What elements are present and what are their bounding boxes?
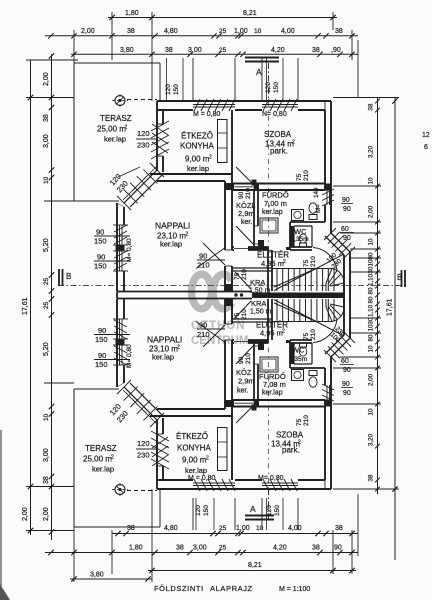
svg-text:6: 6 bbox=[424, 144, 428, 151]
svg-text:ker.lap: ker.lap bbox=[262, 390, 283, 397]
svg-text:NAPPALI: NAPPALI bbox=[155, 221, 190, 231]
svg-text:3,80: 3,80 bbox=[120, 47, 134, 54]
svg-text:17,61: 17,61 bbox=[22, 297, 29, 315]
svg-text:210: 210 bbox=[303, 170, 310, 181]
section mark A bottom bbox=[245, 504, 274, 520]
svg-text:A: A bbox=[256, 67, 262, 77]
svg-text:4,00: 4,00 bbox=[288, 525, 302, 532]
svg-text:2: 2 bbox=[282, 329, 285, 335]
svg-text:2: 2 bbox=[177, 345, 180, 351]
kitchen counter bbox=[218, 120, 228, 163]
small dim labels upper unit bbox=[94, 82, 354, 280]
svg-text:M= 0,80: M= 0,80 bbox=[126, 238, 133, 262]
svg-text:8,21: 8,21 bbox=[243, 10, 257, 17]
svg-text:230: 230 bbox=[137, 141, 150, 150]
svg-text:2,00: 2,00 bbox=[43, 507, 50, 521]
svg-text:7,08 m: 7,08 m bbox=[263, 380, 286, 389]
svg-text:4,80: 4,80 bbox=[164, 525, 178, 532]
svg-text:90: 90 bbox=[98, 326, 106, 335]
svg-text:4,20: 4,20 bbox=[273, 545, 287, 552]
svg-text:1,10: 1,10 bbox=[368, 273, 375, 286]
svg-text:150: 150 bbox=[274, 505, 281, 516]
svg-text:ker.lap: ker.lap bbox=[152, 353, 174, 362]
svg-text:9,00 m: 9,00 m bbox=[182, 456, 207, 465]
washbasin bbox=[292, 210, 304, 221]
svg-text:80: 80 bbox=[368, 287, 375, 294]
svg-text:ÉTKEZŐ: ÉTKEZŐ bbox=[181, 132, 213, 141]
svg-text:3,00: 3,00 bbox=[43, 134, 50, 148]
svg-text:90: 90 bbox=[342, 381, 350, 388]
svg-text:park.: park. bbox=[282, 446, 300, 455]
WC box walls bbox=[289, 222, 291, 250]
svg-text:2,00: 2,00 bbox=[368, 205, 375, 218]
svg-text:10: 10 bbox=[43, 176, 50, 184]
svg-text:2,00: 2,00 bbox=[43, 72, 50, 86]
svg-text:38: 38 bbox=[176, 545, 184, 552]
svg-text:210: 210 bbox=[245, 188, 252, 199]
bottom dimension chain line E bbox=[45, 545, 358, 556]
svg-text:B: B bbox=[397, 273, 402, 282]
svg-text:1,00: 1,00 bbox=[234, 28, 248, 35]
svg-text:ÉTKEZŐ: ÉTKEZŐ bbox=[176, 432, 208, 441]
furdo left wall bbox=[253, 190, 255, 247]
szoba door swing bbox=[236, 167, 253, 184]
svg-text:3,80: 3,80 bbox=[90, 572, 104, 579]
svg-text:4,80: 4,80 bbox=[164, 28, 178, 35]
svg-text:2: 2 bbox=[209, 155, 212, 161]
svg-text:210: 210 bbox=[197, 330, 210, 339]
svg-text:120: 120 bbox=[195, 505, 202, 516]
svg-text:90: 90 bbox=[238, 191, 245, 199]
terrace column bbox=[115, 96, 125, 106]
kitchen left wall bbox=[156, 101, 158, 170]
bottom dimension chain line D bbox=[112, 525, 358, 536]
svg-text:4,95 m: 4,95 m bbox=[260, 329, 283, 338]
bottom extension lines bbox=[74, 489, 358, 582]
stairs entry door arc bbox=[313, 248, 337, 272]
svg-text:3,00: 3,00 bbox=[193, 545, 207, 552]
svg-text:120: 120 bbox=[265, 82, 272, 93]
room labels lower unit bbox=[83, 299, 307, 475]
svg-text:90: 90 bbox=[343, 235, 351, 242]
svg-text:80: 80 bbox=[368, 296, 375, 303]
svg-text:120: 120 bbox=[165, 84, 172, 95]
room labels upper unit bbox=[97, 114, 309, 295]
section mark B left bbox=[59, 269, 71, 286]
scan edge artifacts bbox=[0, 430, 2, 600]
svg-text:2,00: 2,00 bbox=[81, 28, 95, 35]
svg-text:park.: park. bbox=[270, 147, 288, 156]
spine wall corridor side bbox=[231, 110, 233, 250]
svg-text:17,61: 17,61 bbox=[387, 298, 394, 316]
svg-text:210: 210 bbox=[197, 261, 210, 270]
small dim labels lower unit bbox=[94, 309, 354, 516]
svg-text:SZOBA: SZOBA bbox=[264, 130, 292, 139]
svg-text:2: 2 bbox=[292, 140, 295, 146]
svg-text:150: 150 bbox=[94, 262, 107, 271]
nappali window 1 90/150 bbox=[119, 225, 121, 245]
svg-text:38: 38 bbox=[368, 103, 375, 110]
right horizontal extension stubs bbox=[333, 98, 399, 490]
svg-text:120: 120 bbox=[137, 129, 150, 138]
svg-text:2: 2 bbox=[186, 232, 189, 238]
svg-text:25: 25 bbox=[43, 301, 50, 309]
elote r top wall H2 bbox=[232, 246, 234, 248]
svg-text:230: 230 bbox=[137, 451, 150, 460]
svg-text:5,20: 5,20 bbox=[43, 238, 50, 252]
svg-text:KRA: KRA bbox=[251, 299, 266, 308]
svg-text:210: 210 bbox=[303, 415, 310, 426]
svg-text:10: 10 bbox=[368, 238, 375, 245]
svg-text:B: B bbox=[66, 272, 71, 281]
svg-text:12: 12 bbox=[422, 132, 430, 139]
section mark B right bbox=[397, 270, 405, 287]
svg-text:210: 210 bbox=[241, 269, 248, 280]
svg-text:60: 60 bbox=[341, 226, 349, 233]
left outer chain 17,61 bbox=[22, 60, 33, 535]
svg-text:90: 90 bbox=[343, 390, 351, 397]
furdo door gap bbox=[254, 225, 258, 227]
toilet in furdo bbox=[309, 203, 317, 213]
svg-text:7,00 m: 7,00 m bbox=[264, 199, 287, 208]
svg-text:3,00: 3,00 bbox=[43, 448, 50, 462]
svg-text:2,9m: 2,9m bbox=[238, 209, 255, 218]
svg-text:10: 10 bbox=[368, 408, 375, 415]
svg-text:1,50 m: 1,50 m bbox=[250, 309, 272, 316]
svg-text:210: 210 bbox=[310, 329, 317, 340]
svg-text:2: 2 bbox=[283, 259, 286, 265]
svg-text:10: 10 bbox=[43, 413, 50, 421]
svg-text:ker.lap: ker.lap bbox=[92, 465, 114, 474]
nappali window 2 90/150 bbox=[119, 251, 121, 271]
svg-text:90: 90 bbox=[343, 206, 351, 213]
watermark OC Otthon Centrum bbox=[191, 274, 249, 347]
svg-text:120: 120 bbox=[137, 439, 150, 448]
black wall blobs bbox=[258, 240, 264, 247]
svg-text:38: 38 bbox=[43, 114, 50, 122]
svg-text:90: 90 bbox=[238, 356, 245, 364]
svg-text:4,00: 4,00 bbox=[281, 28, 295, 35]
svg-text:10: 10 bbox=[368, 177, 375, 184]
svg-text:TERASZ: TERASZ bbox=[100, 114, 132, 123]
svg-text:38: 38 bbox=[43, 476, 50, 484]
right inner chain bbox=[375, 97, 380, 494]
spine wall nappali side bbox=[224, 181, 226, 250]
svg-text:8,21: 8,21 bbox=[248, 562, 262, 569]
svg-text:75: 75 bbox=[234, 312, 241, 320]
staircase upper flight bbox=[273, 268, 333, 270]
svg-text:80: 80 bbox=[368, 334, 375, 341]
left inner chain bbox=[43, 53, 54, 540]
kitchen-terrace door 120/230 hatch bbox=[151, 121, 169, 131]
svg-text:WC: WC bbox=[292, 346, 305, 355]
svg-text:90: 90 bbox=[343, 367, 351, 374]
right inner chain labels bbox=[368, 103, 375, 481]
bay right wall bbox=[349, 252, 351, 291]
right outer wall upper bbox=[330, 101, 332, 233]
svg-text:3,20: 3,20 bbox=[368, 433, 375, 446]
bay chamfer window 100/230 bbox=[331, 233, 350, 252]
svg-text:150: 150 bbox=[95, 335, 108, 344]
svg-text:2,00: 2,00 bbox=[368, 373, 375, 386]
left horizontal extension stubs bbox=[26, 60, 78, 531]
svg-text:FÖLDSZINTI: FÖLDSZINTI bbox=[154, 584, 204, 593]
svg-text:2: 2 bbox=[206, 456, 209, 462]
svg-text:2: 2 bbox=[111, 455, 114, 461]
svg-text:1,35m: 1,35m bbox=[289, 356, 307, 363]
svg-text:25: 25 bbox=[219, 28, 227, 35]
top dimension chain line B bbox=[45, 28, 358, 39]
svg-text:10: 10 bbox=[256, 525, 264, 532]
svg-text:75: 75 bbox=[296, 418, 303, 426]
stair diagonals bbox=[274, 254, 344, 291]
svg-text:A: A bbox=[250, 504, 256, 514]
svg-text:210: 210 bbox=[310, 256, 317, 267]
kozl door swing bbox=[236, 226, 254, 245]
party wall between the two units bbox=[117, 289, 350, 301]
svg-text:25: 25 bbox=[219, 47, 227, 54]
dashed eaves line column to wall bbox=[127, 99, 157, 101]
door elote r-nappali gap + swing bbox=[225, 249, 232, 251]
svg-text:ker.: ker. bbox=[237, 388, 248, 395]
svg-text:38: 38 bbox=[312, 545, 320, 552]
svg-text:1,50 m: 1,50 m bbox=[249, 288, 271, 295]
svg-text:ker.lap: ker.lap bbox=[160, 240, 182, 249]
svg-text:25,00 m: 25,00 m bbox=[83, 455, 112, 464]
svg-text:M = 1:100: M = 1:100 bbox=[279, 586, 310, 593]
svg-text:38: 38 bbox=[127, 28, 135, 35]
svg-text:ker.lap: ker.lap bbox=[185, 466, 207, 475]
poché fills bbox=[290, 226, 294, 247]
svg-text:3,20: 3,20 bbox=[368, 145, 375, 158]
svg-text:SZOBA: SZOBA bbox=[276, 431, 304, 440]
svg-text:10: 10 bbox=[368, 345, 375, 352]
svg-text:4,95 m: 4,95 m bbox=[261, 259, 284, 268]
szoba door gap in H1 bbox=[233, 184, 235, 191]
top extension lines bbox=[74, 12, 358, 101]
svg-text:38: 38 bbox=[165, 47, 173, 54]
window meeting block bbox=[116, 245, 125, 251]
svg-text:75: 75 bbox=[234, 272, 241, 280]
nappali left wall bbox=[116, 203, 118, 291]
svg-text:150: 150 bbox=[173, 84, 180, 95]
svg-text:M= 0,80: M= 0,80 bbox=[126, 344, 133, 368]
top dimension chain line C bbox=[71, 47, 358, 57]
svg-text:2,00: 2,00 bbox=[22, 507, 29, 521]
svg-text:90: 90 bbox=[97, 253, 105, 262]
svg-text:M=: M= bbox=[315, 204, 322, 213]
svg-text:ker.: ker. bbox=[241, 219, 252, 226]
svg-text:38: 38 bbox=[335, 28, 343, 35]
svg-text:10: 10 bbox=[254, 28, 262, 35]
svg-text:1,10: 1,10 bbox=[368, 304, 375, 317]
top wall window szoba 120/150 bbox=[262, 104, 298, 106]
svg-text:2: 2 bbox=[125, 125, 128, 131]
svg-text:75: 75 bbox=[303, 332, 310, 340]
szoba door jamb poché bbox=[229, 184, 234, 191]
svg-text:150: 150 bbox=[94, 237, 107, 246]
corner door 120/230 at 45deg bbox=[124, 170, 157, 203]
svg-text:,90: ,90 bbox=[332, 545, 342, 552]
svg-text:150: 150 bbox=[95, 360, 108, 369]
svg-text:KONYHA: KONYHA bbox=[180, 142, 214, 151]
svg-text:120: 120 bbox=[266, 505, 273, 516]
svg-text:25: 25 bbox=[219, 525, 227, 532]
section mark A top bbox=[245, 58, 279, 78]
svg-text:,90: ,90 bbox=[331, 47, 341, 54]
svg-text:90: 90 bbox=[199, 252, 207, 261]
svg-text:N= 0,80: N= 0,80 bbox=[262, 111, 287, 118]
svg-text:90: 90 bbox=[98, 351, 106, 360]
svg-text:1,00: 1,00 bbox=[236, 525, 250, 532]
nappali top wall bbox=[150, 173, 232, 175]
svg-text:ker.lap: ker.lap bbox=[262, 209, 283, 216]
building top wall bbox=[157, 100, 331, 102]
KRA top wall bbox=[232, 267, 272, 269]
terrace outline bbox=[74, 62, 160, 64]
WC toilet bbox=[299, 234, 307, 243]
svg-text:ALAPRAJZ: ALAPRAJZ bbox=[210, 584, 253, 593]
svg-text:75: 75 bbox=[303, 259, 310, 267]
svg-text:5,20: 5,20 bbox=[43, 342, 50, 356]
svg-text:38: 38 bbox=[127, 525, 135, 532]
svg-text:38: 38 bbox=[368, 474, 375, 481]
party wall junction dots bbox=[234, 293, 237, 296]
svg-text:150: 150 bbox=[203, 505, 210, 516]
svg-text:1,35m: 1,35m bbox=[291, 236, 309, 243]
svg-text:M = 0,80: M = 0,80 bbox=[188, 475, 216, 482]
szoba bottom wall bbox=[232, 183, 325, 185]
top dimension chain line A (totals 1,80 / 8,21) bbox=[108, 10, 337, 20]
svg-text:25,00 m: 25,00 m bbox=[97, 125, 126, 134]
svg-text:150: 150 bbox=[273, 82, 280, 93]
svg-text:2,9m: 2,9m bbox=[238, 377, 255, 386]
right wall window 90/90 bbox=[326, 189, 328, 205]
svg-text:3,00: 3,00 bbox=[188, 47, 202, 54]
svg-text:M = 0,80: M = 0,80 bbox=[193, 111, 221, 118]
svg-text:M= 0,80: M= 0,80 bbox=[258, 475, 284, 482]
svg-text:TERASZ: TERASZ bbox=[85, 444, 117, 453]
svg-text:KONYHA: KONYHA bbox=[177, 444, 211, 453]
bathtub / shower bbox=[260, 218, 278, 233]
svg-text:KRA: KRA bbox=[250, 278, 265, 287]
svg-text:10: 10 bbox=[368, 324, 375, 331]
svg-text:10: 10 bbox=[368, 259, 375, 266]
section line B-B horizontal dash-dot bbox=[58, 285, 406, 287]
svg-text:ker.lap: ker.lap bbox=[104, 135, 126, 144]
stair winder fan bbox=[332, 269, 344, 284]
svg-text:9,00 m: 9,00 m bbox=[185, 155, 210, 164]
KRA door swing bbox=[235, 272, 251, 289]
svg-text:60: 60 bbox=[341, 358, 349, 365]
svg-text:90: 90 bbox=[96, 228, 104, 237]
svg-text:210: 210 bbox=[245, 353, 252, 364]
svg-text:140: 140 bbox=[313, 187, 320, 198]
svg-text:25: 25 bbox=[219, 545, 227, 552]
stair left wall bbox=[267, 247, 269, 291]
svg-text:75: 75 bbox=[296, 173, 303, 181]
svg-text:NAPPALI: NAPPALI bbox=[147, 335, 182, 345]
svg-text:38: 38 bbox=[312, 47, 320, 54]
svg-text:90: 90 bbox=[342, 197, 350, 204]
svg-text:210: 210 bbox=[241, 309, 248, 320]
svg-text:38: 38 bbox=[335, 525, 343, 532]
svg-text:WC: WC bbox=[294, 227, 307, 236]
svg-text:25: 25 bbox=[43, 277, 50, 285]
svg-text:ker.lap: ker.lap bbox=[187, 164, 209, 173]
section line A-A vertical dash-dot bbox=[268, 63, 270, 101]
top wall window kitchen 120/150 bbox=[193, 104, 235, 106]
svg-text:1,80: 1,80 bbox=[129, 545, 143, 552]
svg-text:1,80: 1,80 bbox=[125, 10, 139, 17]
svg-text:4,20: 4,20 bbox=[271, 47, 285, 54]
bottom dimension chain line F (8,21) bbox=[70, 562, 356, 582]
right outer chain 17,61 bbox=[387, 97, 398, 560]
